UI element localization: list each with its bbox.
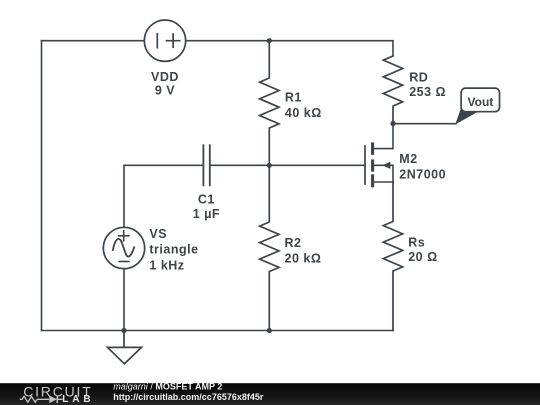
wire VS bottom bbox=[123, 269, 125, 331]
net flag Vout bbox=[455, 88, 499, 124]
resistor RD bbox=[383, 56, 402, 124]
voltage source VS bbox=[103, 227, 144, 268]
svg-text:Rs: Rs bbox=[408, 235, 425, 249]
ground bbox=[108, 331, 142, 364]
svg-text:40 kΩ: 40 kΩ bbox=[285, 106, 322, 120]
svg-text:R2: R2 bbox=[285, 236, 302, 250]
svg-text:Vout: Vout bbox=[468, 95, 494, 109]
svg-text:1 kHz: 1 kHz bbox=[149, 258, 184, 272]
svg-text:http://circuitlab.com/cc76576x: http://circuitlab.com/cc76576x8f45r bbox=[113, 392, 264, 402]
transistor M2 (NMOS) bbox=[365, 126, 393, 187]
svg-text:R1: R1 bbox=[285, 90, 302, 104]
node junction drain bbox=[390, 121, 395, 126]
svg-text:triangle: triangle bbox=[149, 243, 198, 257]
node junction top bbox=[267, 38, 272, 43]
svg-text:2N7000: 2N7000 bbox=[399, 167, 446, 181]
svg-text:VS: VS bbox=[149, 227, 167, 241]
svg-text:malgarni / MOSFET AMP 2: malgarni / MOSFET AMP 2 bbox=[113, 381, 222, 391]
wire top-left horizontal bbox=[42, 40, 145, 42]
svg-text:9 V: 9 V bbox=[155, 84, 175, 98]
resistor R1 bbox=[260, 41, 279, 166]
svg-text:RD: RD bbox=[409, 70, 428, 84]
node junction mid bbox=[267, 163, 272, 168]
svg-text:1 µF: 1 µF bbox=[193, 207, 220, 221]
footer bar bbox=[0, 383, 540, 405]
svg-text:253 Ω: 253 Ω bbox=[409, 85, 446, 99]
svg-text:20 kΩ: 20 kΩ bbox=[285, 251, 322, 265]
resistor R2 bbox=[260, 165, 279, 330]
wire top middle bbox=[186, 40, 270, 42]
wire left vertical bbox=[41, 41, 43, 331]
CircuitLab logo bbox=[20, 383, 95, 405]
node junction ground bbox=[121, 328, 126, 333]
wire top right with corner to RD bbox=[269, 41, 393, 56]
svg-text:20 Ω: 20 Ω bbox=[408, 250, 437, 264]
svg-text:VDD: VDD bbox=[151, 70, 179, 84]
wire VS to C1 bbox=[124, 165, 203, 227]
resistor Rs bbox=[383, 182, 402, 331]
capacitor C1 bbox=[203, 144, 209, 186]
voltage source VDD bbox=[144, 20, 185, 61]
svg-text:LAB: LAB bbox=[62, 394, 94, 405]
wire C1 to gate bbox=[210, 164, 365, 166]
wire to Vout flag bbox=[393, 123, 456, 125]
node junction R2 bottom bbox=[267, 328, 272, 333]
svg-text:C1: C1 bbox=[198, 193, 215, 207]
svg-text:M2: M2 bbox=[399, 152, 417, 166]
wire bottom horizontal bbox=[42, 330, 394, 332]
